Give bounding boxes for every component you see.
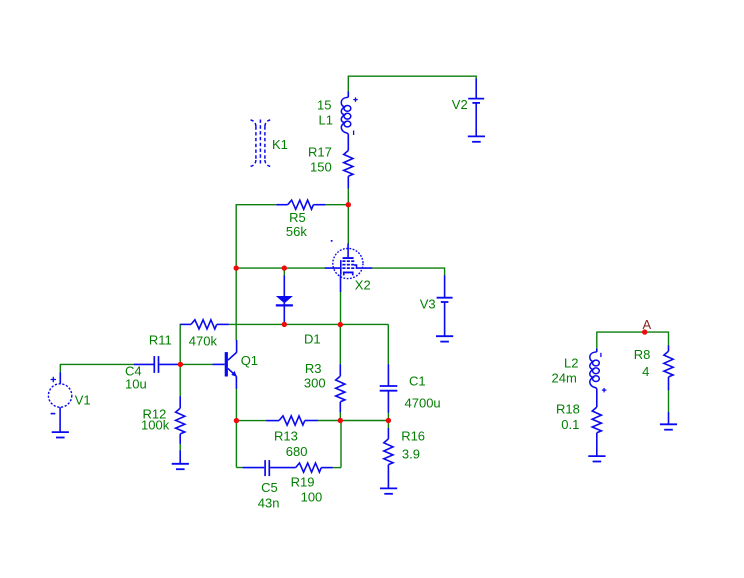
svg-text:R3: R3 [305,361,322,376]
svg-text:V2: V2 [452,97,468,112]
svg-text:15: 15 [317,97,331,112]
svg-text:V3: V3 [420,297,436,312]
svg-text:L2: L2 [564,355,578,370]
svg-text:A: A [643,317,652,332]
svg-text:43n: 43n [258,495,280,510]
svg-text:V1: V1 [75,392,91,407]
svg-text:R17: R17 [308,144,332,159]
svg-text:C5: C5 [261,480,278,495]
svg-text:R18: R18 [556,401,580,416]
svg-text:Q1: Q1 [241,353,258,368]
svg-text:R13: R13 [274,428,298,443]
svg-text:4700u: 4700u [405,395,441,410]
svg-text:0.1: 0.1 [561,417,579,432]
svg-text:D1: D1 [304,331,321,346]
svg-text:R8: R8 [634,347,651,362]
svg-text:K1: K1 [272,137,288,152]
svg-text:300: 300 [304,376,326,391]
svg-text:R19: R19 [291,474,315,489]
svg-text:56k: 56k [286,224,307,239]
svg-text:X2: X2 [355,278,371,293]
svg-text:R5: R5 [289,210,306,225]
svg-text:100k: 100k [141,417,170,432]
svg-text:150: 150 [310,159,332,174]
svg-text:680: 680 [286,444,308,459]
svg-text:100: 100 [301,490,323,505]
svg-text:L1: L1 [319,112,333,127]
svg-text:3.9: 3.9 [402,447,420,462]
svg-text:R16: R16 [401,429,425,444]
svg-text:10u: 10u [125,376,147,391]
svg-text:R11: R11 [149,332,172,347]
svg-text:4: 4 [642,364,649,379]
svg-text:470k: 470k [189,333,218,348]
svg-text:C1: C1 [409,373,426,388]
svg-text:24m: 24m [552,370,577,385]
